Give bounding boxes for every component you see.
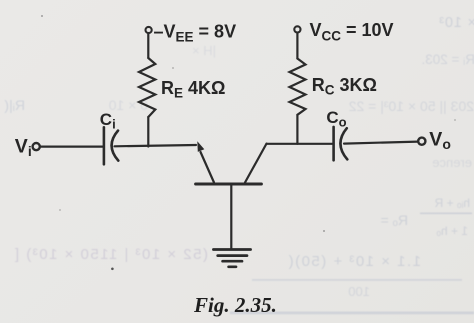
transistor Q1 emitter lead [201, 152, 215, 183]
circuit black ink [33, 26, 426, 266]
terminal Vo [418, 138, 425, 145]
terminal VCC [294, 26, 300, 32]
svg-text:Rₒ =: Rₒ = [381, 212, 408, 228]
capacitor Co curved plate [340, 128, 347, 159]
svg-text:hᵢₒ + R: hᵢₒ + R [434, 196, 470, 210]
svg-text:1.1 × 10³ + (50)(: 1.1 × 10³ + (50)( [287, 253, 421, 270]
svg-text:erence: erence [432, 155, 472, 170]
wire collector to Co [267, 143, 333, 145]
wire VCC to RC [296, 33, 298, 59]
transistor Q1 collector lead [245, 144, 267, 183]
svg-text:(52 × 10³ | 1150 × 10³) [: (52 × 10³ | 1150 × 10³) [ [13, 246, 208, 263]
wire RE to emitter node [147, 117, 149, 147]
transistor Q1 emitter arrowhead [197, 141, 204, 152]
scan speckles [41, 15, 456, 270]
wire base to ground [230, 184, 232, 249]
svg-text:|H ×: |H × [192, 43, 216, 58]
wire Co to Vo [344, 142, 418, 144]
svg-text:RE 4KΩ: RE 4KΩ [161, 78, 225, 101]
terminal Vi [33, 143, 40, 150]
svg-text:× 10³: × 10³ [439, 15, 474, 31]
svg-text:RC 3KΩ: RC 3KΩ [312, 75, 377, 98]
svg-text:VCC = 10V: VCC = 10V [310, 20, 394, 44]
ground symbol [213, 248, 250, 251]
capacitor Co straight plate [332, 127, 335, 160]
transistor Q1 base bar [196, 183, 262, 186]
capacitor Ci curved plate [112, 131, 119, 161]
svg-text:Fig. 2.35.: Fig. 2.35. [193, 293, 277, 317]
svg-text:Vi: Vi [15, 136, 32, 160]
svg-text:–VEE = 8V: –VEE = 8V [154, 21, 237, 44]
resistor RE 4KOhm [139, 58, 155, 117]
svg-text:1 + hₒ: 1 + hₒ [436, 224, 468, 238]
svg-text:Co: Co [326, 108, 346, 130]
svg-text:Vo: Vo [429, 128, 451, 152]
svg-text:Rᵢ|(: Rᵢ|( [4, 97, 25, 113]
wire Ci to emitter node [115, 145, 197, 146]
svg-text:Ci: Ci [100, 110, 116, 132]
svg-text:100: 100 [348, 284, 370, 299]
terminal -VEE [146, 27, 152, 33]
wire Vi to Ci [41, 146, 103, 148]
wire VEE to RE [147, 33, 149, 58]
capacitor Ci straight plate [103, 127, 106, 164]
svg-text:Rᵢ = 203.: Rᵢ = 203. [421, 52, 474, 67]
resistor RC 3KOhm [290, 59, 306, 115]
wire RC to collector node [296, 115, 298, 144]
svg-text:203 || 50 × 10³| = 22: 203 || 50 × 10³| = 22 [348, 98, 474, 114]
